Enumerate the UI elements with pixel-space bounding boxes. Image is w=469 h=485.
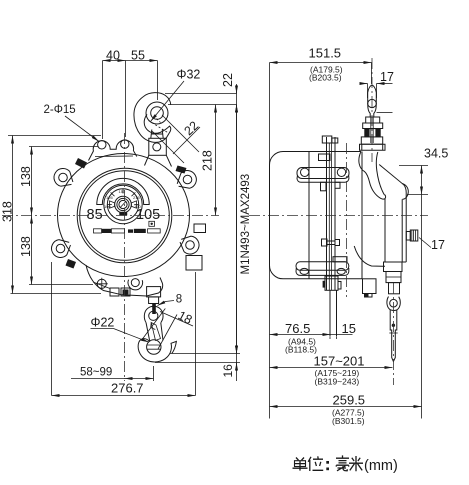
dim phi32 leader	[151, 68, 201, 122]
svg-text:M1N493~MAX2493: M1N493~MAX2493	[240, 174, 252, 275]
rod top cap	[322, 136, 332, 143]
dim 259.5	[270, 393, 422, 427]
svg-text:151.5: 151.5	[309, 46, 342, 61]
svg-text:138: 138	[19, 166, 33, 187]
svg-text:218: 218	[201, 150, 215, 171]
dim 40-55 top	[103, 49, 158, 140]
hook safety latch dotted	[149, 116, 169, 133]
svg-text:8: 8	[176, 294, 182, 306]
top hook washer block	[366, 117, 380, 123]
svg-text:2-Φ15: 2-Φ15	[44, 104, 76, 116]
dim 157-201	[270, 150, 393, 419]
SIDE VIEW	[249, 58, 428, 385]
svg-text:85: 85	[87, 207, 103, 223]
svg-text:157~201: 157~201	[314, 354, 365, 369]
svg-text:22: 22	[221, 73, 235, 87]
top hook bearing blacks	[364, 129, 369, 137]
bottom bracket plate	[86, 265, 163, 296]
cable	[152, 304, 156, 315]
dial outer circle	[104, 185, 142, 223]
side horizontal centerline	[249, 215, 428, 217]
bottom small blocks	[110, 288, 119, 296]
top mounting bracket	[89, 140, 137, 160]
swivel lower	[389, 283, 400, 294]
bottom right curve	[354, 246, 385, 266]
front vertical centerline	[124, 133, 126, 381]
svg-text:105: 105	[106, 195, 113, 200]
housing bottom	[385, 261, 406, 263]
dim 218	[201, 105, 216, 216]
label 2-phi15	[44, 104, 100, 142]
svg-text:34.5: 34.5	[424, 147, 448, 161]
front face ring inner	[80, 171, 170, 261]
svg-text:17: 17	[431, 238, 445, 252]
clamp bar lower	[296, 257, 349, 276]
side body inner vertical rear	[308, 152, 310, 279]
bracket hole left (phi15)	[98, 141, 106, 149]
hump neck outer edge	[359, 152, 386, 200]
clamp bar upper	[297, 168, 349, 183]
svg-text:Φ32: Φ32	[177, 68, 201, 82]
dim 151.5 side top	[270, 46, 372, 151]
side right edge	[405, 203, 407, 262]
dark tab right	[176, 166, 187, 174]
label 17 bolt leader	[419, 238, 445, 253]
dial tiny figures	[104, 189, 141, 209]
top hook lens	[368, 99, 377, 107]
bottom hook eye hole	[149, 311, 158, 320]
swivel block step	[384, 262, 403, 272]
svg-text:(B203.5): (B203.5)	[309, 73, 342, 83]
dim 58-99	[71, 366, 154, 381]
mid bolt	[322, 239, 340, 246]
glyph mi	[349, 456, 363, 471]
dim 138 top	[19, 147, 98, 216]
side bottom hook eye	[387, 297, 400, 311]
housing front edge	[384, 198, 386, 262]
bolt below upper bar	[321, 182, 327, 191]
ear lug upper-left	[54, 168, 73, 186]
glyph hao	[336, 455, 349, 470]
glyph wei	[308, 456, 323, 471]
svg-text:105: 105	[136, 207, 160, 223]
dim MIN-MAX vertical	[237, 105, 253, 354]
drum axis centerline	[346, 143, 348, 297]
bottom hook latch	[151, 323, 161, 341]
side body inner vertical front	[361, 152, 363, 279]
bottom hook pulley	[147, 340, 161, 354]
bolt 17 detail	[406, 230, 418, 241]
bottom hook eye housing	[144, 306, 163, 323]
top hook body	[134, 93, 171, 143]
svg-text:138: 138	[19, 236, 33, 257]
dim 16 bottom right	[155, 345, 240, 378]
svg-text:318: 318	[1, 201, 15, 222]
svg-text:(B319~243): (B319~243)	[315, 377, 360, 387]
swivel body	[386, 272, 401, 283]
label 8 leader	[158, 294, 183, 306]
small plate right	[194, 224, 206, 233]
top hook eye hole	[151, 107, 164, 120]
DIMENSIONS	[1, 46, 449, 427]
top hook eye outer	[146, 102, 168, 124]
ear lug upper-right	[177, 171, 196, 189]
svg-text:Φ22: Φ22	[91, 316, 115, 330]
FRONT VIEW	[2, 93, 219, 381]
lower rod stub	[330, 290, 337, 336]
front face ring outer	[77, 168, 172, 263]
cable notch	[363, 279, 377, 294]
cable guide block	[147, 287, 161, 297]
ear lug lower-right	[180, 236, 199, 254]
svg-text:40: 40	[106, 49, 120, 63]
dim 276.7	[52, 262, 196, 396]
label phi22 leader	[91, 316, 150, 343]
fullwidth colon	[326, 461, 329, 470]
ear lug lower-left	[52, 240, 71, 258]
dial band arc	[97, 178, 149, 204]
hump right slope	[379, 165, 406, 204]
hump neck inner edge	[376, 152, 385, 195]
svg-text:215: 215	[133, 195, 140, 200]
top hook slot lines	[371, 117, 373, 143]
top hook centerline	[371, 58, 373, 162]
top hook clevis	[361, 137, 382, 144]
glyph dan	[293, 458, 308, 471]
hook pin hole	[153, 143, 161, 151]
right edge bulge	[402, 184, 408, 200]
side bottom hook blade	[390, 310, 397, 362]
hook support flares	[145, 155, 172, 166]
bottom cross hole	[96, 278, 108, 290]
svg-text:276.7: 276.7	[111, 381, 144, 396]
svg-text:15: 15	[342, 321, 356, 336]
svg-text:17: 17	[380, 70, 394, 84]
hook swivel neck	[151, 130, 163, 139]
bottom hook curl	[138, 339, 176, 362]
dim 22 hook throat diagonal	[152, 115, 201, 163]
top hook blade edge view	[368, 85, 377, 117]
side body main box	[269, 152, 362, 279]
dim 18 diagonal	[143, 308, 195, 349]
front body outer circle	[58, 154, 190, 277]
dim 318 left	[1, 136, 102, 294]
dial radial ticks	[107, 189, 139, 205]
dial pointer wedges	[110, 201, 115, 208]
svg-text:(mm): (mm)	[364, 458, 398, 474]
svg-text:55: 55	[131, 49, 145, 63]
dial hub rings	[115, 196, 132, 213]
dial inner circle	[107, 189, 138, 220]
svg-text:16: 16	[221, 364, 235, 378]
front horizontal centerline	[2, 215, 219, 217]
bottom hook centerline	[392, 283, 394, 385]
dark tab upper-left	[75, 158, 87, 169]
svg-text:259.5: 259.5	[333, 393, 366, 408]
dim 17 side top	[361, 70, 394, 113]
dim 22 vertical right	[165, 73, 237, 381]
dial black mark	[119, 212, 127, 216]
small latch square	[149, 221, 155, 226]
bracket hole right (phi15)	[121, 140, 129, 148]
bottom lug	[128, 279, 143, 290]
bottom hook shank	[146, 323, 163, 342]
unit note	[293, 455, 398, 474]
svg-text:58~99: 58~99	[80, 367, 112, 379]
svg-text:76.5: 76.5	[285, 321, 310, 336]
dim 34.5	[399, 147, 448, 419]
hook support block	[149, 138, 167, 155]
svg-text:(B118.5): (B118.5)	[285, 345, 317, 355]
rod top nut	[319, 154, 331, 161]
label strips row	[94, 229, 161, 233]
svg-text:(B301.5): (B301.5)	[332, 416, 365, 426]
dark tab lower-left	[66, 259, 77, 269]
dim 76.5 and 15	[270, 321, 356, 355]
rod	[327, 137, 336, 290]
side block right	[186, 256, 202, 271]
bolt below lower bar	[325, 276, 338, 290]
dim 138 bottom	[19, 216, 93, 285]
